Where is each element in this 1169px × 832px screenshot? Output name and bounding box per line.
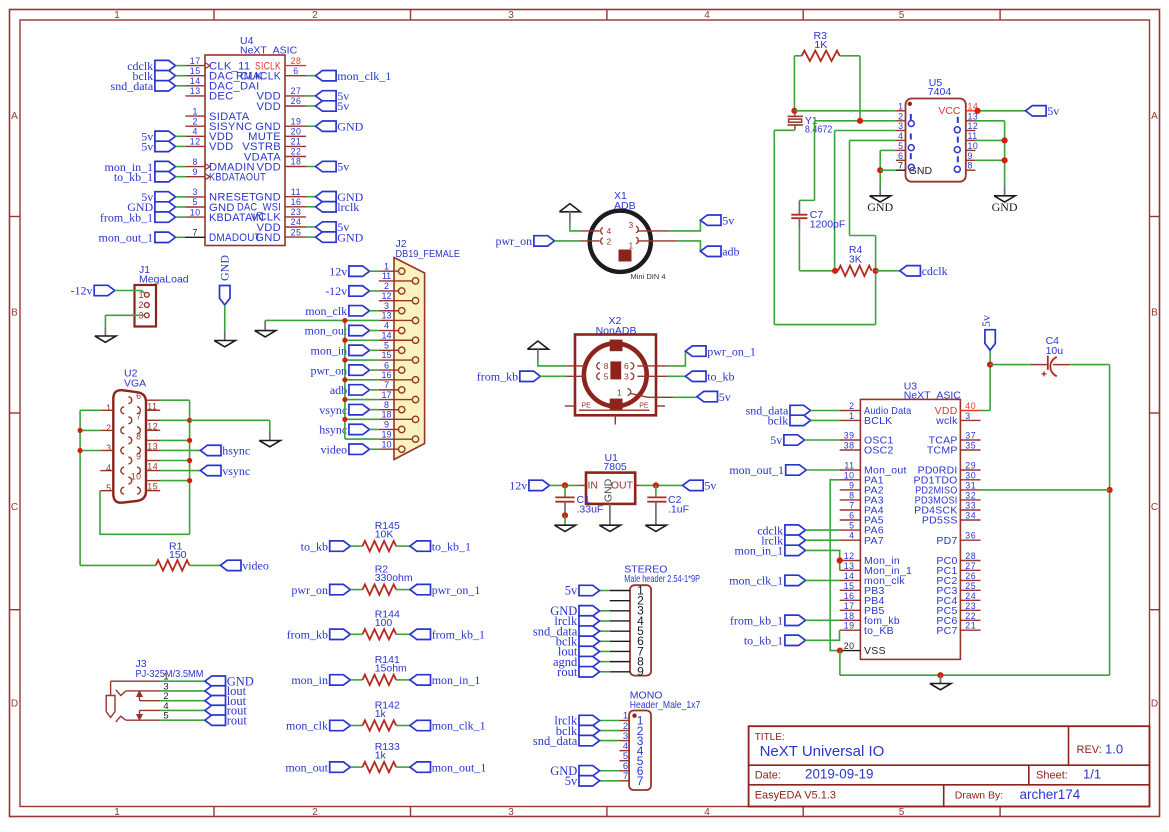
svg-text:17: 17	[844, 601, 855, 611]
svg-text:mon_in_1: mon_in_1	[735, 544, 784, 558]
svg-text:18: 18	[291, 157, 302, 167]
svg-text:13: 13	[381, 311, 391, 321]
svg-text:5v: 5v	[565, 774, 578, 788]
svg-text:VDD: VDD	[256, 161, 281, 173]
svg-text:32: 32	[965, 490, 976, 500]
svg-text:hsync: hsync	[222, 444, 250, 458]
svg-text:from_kb_1: from_kb_1	[100, 210, 153, 224]
svg-text:14: 14	[190, 76, 201, 86]
svg-text:39: 39	[844, 431, 855, 441]
svg-text:9: 9	[849, 480, 854, 490]
svg-text:10u: 10u	[1046, 345, 1064, 357]
svg-text:GND: GND	[337, 230, 363, 244]
svg-text:GND: GND	[337, 119, 363, 133]
svg-text:12: 12	[381, 291, 391, 301]
svg-text:PE: PE	[582, 403, 592, 410]
svg-text:DB19_FEMALE: DB19_FEMALE	[396, 248, 461, 260]
svg-text:to_kb_1: to_kb_1	[114, 170, 153, 184]
svg-text:7: 7	[192, 228, 197, 238]
svg-text:1: 1	[114, 10, 120, 21]
svg-text:7: 7	[898, 161, 903, 171]
svg-text:8: 8	[136, 431, 141, 441]
svg-text:PD5SS: PD5SS	[922, 515, 958, 527]
svg-text:18: 18	[381, 410, 391, 420]
svg-text:11: 11	[147, 401, 157, 411]
svg-text:5: 5	[849, 521, 854, 531]
svg-text:to_kb_1: to_kb_1	[744, 634, 783, 648]
svg-text:21: 21	[965, 621, 976, 631]
svg-text:6: 6	[384, 360, 389, 370]
svg-text:5: 5	[899, 807, 905, 818]
svg-text:bclk: bclk	[768, 414, 789, 428]
svg-text:GND: GND	[602, 478, 614, 502]
svg-text:.1uF: .1uF	[668, 504, 689, 516]
svg-text:REV:: REV:	[1077, 744, 1102, 756]
svg-text:mon_clk_1: mon_clk_1	[432, 719, 486, 733]
svg-text:19: 19	[381, 429, 391, 439]
svg-text:4: 4	[898, 131, 903, 141]
svg-text:4: 4	[704, 10, 710, 21]
svg-text:20: 20	[291, 127, 302, 137]
svg-text:2: 2	[384, 281, 389, 291]
svg-text:100: 100	[375, 617, 393, 629]
svg-text:B: B	[11, 308, 18, 319]
svg-text:35: 35	[965, 441, 976, 451]
svg-text:8: 8	[384, 400, 389, 410]
svg-text:13: 13	[147, 441, 158, 451]
svg-text:5v: 5v	[979, 315, 993, 327]
svg-text:B: B	[1151, 308, 1158, 319]
svg-text:mon_clk: mon_clk	[286, 719, 328, 733]
svg-text:7: 7	[849, 501, 854, 511]
svg-text:19: 19	[844, 621, 855, 631]
svg-text:2: 2	[138, 300, 143, 310]
svg-text:2: 2	[312, 807, 318, 818]
svg-text:1: 1	[898, 101, 903, 111]
svg-text:36: 36	[965, 531, 976, 541]
svg-text:3: 3	[384, 301, 389, 311]
svg-text:15ohm: 15ohm	[375, 663, 407, 675]
svg-text:9: 9	[192, 167, 197, 177]
svg-text:12v: 12v	[329, 264, 347, 278]
svg-text:9: 9	[968, 151, 973, 161]
svg-text:12: 12	[190, 137, 201, 147]
svg-text:31: 31	[965, 480, 976, 490]
svg-text:11: 11	[382, 271, 391, 281]
svg-text:PC7: PC7	[936, 625, 957, 637]
svg-text:Date:: Date:	[755, 769, 781, 781]
svg-text:28: 28	[965, 551, 976, 561]
svg-text:12v: 12v	[509, 479, 527, 493]
svg-text:2: 2	[849, 401, 854, 411]
svg-text:mon_out: mon_out	[285, 760, 328, 774]
svg-text:IN: IN	[588, 480, 599, 492]
svg-text:mon_in: mon_in	[311, 344, 348, 358]
svg-text:23: 23	[291, 207, 302, 217]
svg-text:to_KB: to_KB	[864, 625, 894, 637]
svg-text:5v: 5v	[1047, 104, 1059, 118]
svg-text:10: 10	[844, 470, 855, 480]
svg-text:1: 1	[106, 403, 111, 413]
svg-text:mon_out_1: mon_out_1	[432, 760, 487, 774]
svg-text:12: 12	[147, 421, 158, 431]
svg-text:snd_data: snd_data	[111, 79, 154, 93]
svg-text:5v: 5v	[722, 213, 734, 227]
svg-text:24: 24	[291, 217, 302, 227]
svg-text:5v: 5v	[770, 433, 782, 447]
svg-text:3: 3	[965, 411, 970, 421]
svg-text:pwr_on_1: pwr_on_1	[707, 344, 756, 358]
svg-text:.33uF: .33uF	[577, 504, 604, 516]
svg-text:8: 8	[604, 361, 609, 371]
svg-text:3: 3	[508, 10, 514, 21]
svg-text:11: 11	[968, 131, 978, 141]
svg-text:3K: 3K	[849, 253, 862, 265]
svg-text:rout: rout	[557, 665, 578, 679]
svg-text:6: 6	[293, 66, 298, 76]
svg-text:from_kb: from_kb	[287, 628, 328, 642]
svg-text:8: 8	[849, 490, 854, 500]
svg-text:1: 1	[114, 807, 120, 818]
svg-text:7805: 7805	[603, 461, 627, 473]
svg-text:5v: 5v	[141, 140, 153, 154]
svg-text:4: 4	[192, 127, 197, 137]
svg-text:from_kb_1: from_kb_1	[730, 614, 783, 628]
svg-text:mon_in_1: mon_in_1	[432, 673, 481, 687]
svg-text:16: 16	[844, 591, 855, 601]
svg-text:pwr_on: pwr_on	[291, 583, 328, 597]
svg-text:6: 6	[624, 361, 629, 371]
svg-text:from_kb_1: from_kb_1	[432, 628, 485, 642]
svg-text:20: 20	[844, 641, 855, 651]
svg-text:3: 3	[624, 372, 629, 382]
svg-text:vsync: vsync	[319, 403, 347, 417]
svg-text:1: 1	[849, 411, 854, 421]
svg-text:4: 4	[607, 226, 612, 236]
svg-text:lrclk: lrclk	[337, 200, 359, 214]
svg-text:snd_data: snd_data	[533, 734, 578, 748]
svg-text:12: 12	[844, 551, 855, 561]
svg-text:2: 2	[607, 237, 612, 247]
svg-text:12: 12	[968, 121, 979, 131]
svg-text:NeXT Universal IO: NeXT Universal IO	[760, 743, 885, 760]
svg-text:26: 26	[291, 96, 302, 106]
svg-text:1k: 1k	[375, 708, 387, 720]
svg-text:8.4672: 8.4672	[805, 124, 833, 136]
svg-text:5v: 5v	[337, 99, 349, 113]
svg-text:27: 27	[291, 86, 302, 96]
svg-text:1: 1	[192, 106, 197, 116]
svg-text:11: 11	[844, 461, 854, 471]
svg-text:9: 9	[384, 420, 389, 430]
svg-text:to_kb_1: to_kb_1	[432, 539, 471, 553]
svg-text:6: 6	[136, 391, 141, 401]
svg-text:2: 2	[192, 116, 197, 126]
svg-text:21: 21	[291, 137, 302, 147]
svg-text:VCC: VCC	[938, 105, 961, 117]
svg-text:2: 2	[106, 423, 111, 433]
svg-text:C: C	[11, 502, 18, 513]
svg-text:vsync: vsync	[222, 464, 250, 478]
svg-text:C: C	[1151, 502, 1158, 513]
svg-text:BCLK: BCLK	[864, 415, 892, 427]
svg-text:cdclk: cdclk	[922, 264, 948, 278]
svg-text:OSC2: OSC2	[864, 445, 894, 457]
svg-text:25: 25	[965, 581, 976, 591]
svg-text:4: 4	[849, 531, 854, 541]
svg-text:to_kb: to_kb	[707, 370, 734, 384]
svg-text:mon_out: mon_out	[305, 324, 348, 338]
svg-text:11: 11	[291, 187, 301, 197]
svg-text:A: A	[1151, 111, 1158, 122]
svg-text:23: 23	[965, 601, 976, 611]
svg-text:15: 15	[381, 350, 391, 360]
svg-text:GND: GND	[909, 165, 933, 177]
svg-text:video: video	[321, 442, 348, 456]
svg-text:7: 7	[136, 411, 141, 421]
svg-text:5: 5	[604, 372, 609, 382]
svg-text:VDD: VDD	[256, 101, 281, 113]
svg-text:D: D	[1151, 699, 1158, 710]
svg-text:330ohm: 330ohm	[375, 572, 413, 584]
svg-text:2: 2	[312, 10, 318, 21]
svg-text:pwr_on: pwr_on	[311, 363, 348, 377]
svg-text:18: 18	[844, 611, 855, 621]
svg-text:VGA: VGA	[124, 378, 146, 390]
svg-text:37: 37	[965, 431, 976, 441]
svg-text:38: 38	[844, 441, 855, 451]
svg-text:7404: 7404	[928, 86, 952, 98]
svg-text:mon_clk: mon_clk	[305, 304, 347, 318]
svg-text:PE: PE	[639, 403, 649, 410]
svg-text:15: 15	[190, 66, 201, 76]
svg-text:26: 26	[965, 571, 976, 581]
svg-text:from_kb: from_kb	[477, 370, 518, 384]
svg-text:3: 3	[508, 807, 514, 818]
svg-text:1: 1	[617, 387, 622, 397]
svg-text:-12v: -12v	[325, 284, 347, 298]
svg-text:mon_clk_1: mon_clk_1	[337, 69, 391, 83]
svg-text:rout: rout	[227, 713, 248, 727]
svg-text:1k: 1k	[375, 750, 387, 762]
svg-text:2019-09-19: 2019-09-19	[805, 767, 874, 782]
svg-text:RMACLK: RMACLK	[236, 71, 281, 83]
svg-text:7: 7	[637, 774, 644, 788]
svg-text:PA7: PA7	[864, 535, 884, 547]
svg-text:Header_Male_1x7: Header_Male_1x7	[630, 699, 701, 711]
svg-text:GND: GND	[992, 200, 1018, 214]
svg-text:wclk: wclk	[935, 415, 958, 427]
svg-text:4: 4	[106, 463, 111, 473]
svg-text:10: 10	[968, 141, 979, 151]
svg-text:1/1: 1/1	[1083, 767, 1101, 782]
svg-text:16: 16	[381, 370, 391, 380]
svg-text:Mini DIN 4: Mini DIN 4	[630, 272, 665, 281]
svg-text:17: 17	[190, 56, 201, 66]
svg-text:mon_out_1: mon_out_1	[729, 463, 784, 477]
svg-text:14: 14	[147, 462, 158, 472]
svg-text:9: 9	[637, 665, 644, 679]
svg-text:30: 30	[965, 470, 976, 480]
svg-text:GND: GND	[218, 255, 232, 281]
svg-text:archer174: archer174	[1020, 787, 1081, 802]
svg-text:2: 2	[898, 111, 903, 121]
svg-text:5v: 5v	[337, 160, 349, 174]
svg-text:5v: 5v	[719, 390, 731, 404]
svg-text:19: 19	[291, 116, 302, 126]
svg-text:13: 13	[844, 561, 855, 571]
svg-text:TITLE:: TITLE:	[755, 732, 785, 743]
svg-text:adb: adb	[722, 245, 739, 259]
svg-text:29: 29	[965, 461, 976, 471]
svg-text:25: 25	[291, 227, 302, 237]
svg-text:DEC: DEC	[209, 91, 234, 103]
svg-text:34: 34	[965, 511, 976, 521]
svg-text:3: 3	[192, 187, 197, 197]
svg-text:24: 24	[965, 591, 976, 601]
svg-text:1200pF: 1200pF	[810, 219, 846, 231]
svg-text:EasyEDA V5.1.3: EasyEDA V5.1.3	[755, 789, 836, 801]
svg-text:33: 33	[965, 501, 976, 511]
svg-text:40: 40	[965, 401, 976, 411]
svg-text:150: 150	[169, 549, 187, 561]
svg-text:Drawn By:: Drawn By:	[955, 789, 1003, 801]
svg-text:8: 8	[968, 161, 973, 171]
svg-text:1: 1	[384, 261, 389, 271]
svg-text:5: 5	[192, 197, 197, 207]
svg-text:pwr_on_1: pwr_on_1	[432, 583, 481, 597]
svg-text:GND: GND	[255, 232, 281, 244]
svg-text:10: 10	[381, 439, 391, 449]
svg-text:13: 13	[190, 86, 201, 96]
svg-text:-12v: -12v	[71, 284, 93, 298]
svg-text:5v: 5v	[565, 584, 578, 598]
svg-text:PD7: PD7	[936, 535, 957, 547]
svg-text:5: 5	[899, 10, 905, 21]
svg-text:8: 8	[192, 157, 197, 167]
svg-text:7: 7	[384, 380, 389, 390]
svg-text:15: 15	[147, 482, 158, 492]
svg-text:VDD: VDD	[209, 141, 234, 153]
svg-text:5: 5	[384, 341, 389, 351]
svg-text:to_kb: to_kb	[301, 539, 328, 553]
svg-text:4: 4	[704, 807, 710, 818]
svg-text:6: 6	[849, 511, 854, 521]
svg-text:15: 15	[844, 581, 855, 591]
svg-text:Sheet:: Sheet:	[1036, 769, 1068, 781]
svg-text:17: 17	[381, 390, 391, 400]
svg-text:28: 28	[291, 56, 302, 66]
svg-text:PJ-325M/3.5MM: PJ-325M/3.5MM	[136, 668, 204, 680]
svg-text:GND: GND	[867, 200, 893, 214]
svg-text:MegaLoad: MegaLoad	[139, 274, 189, 286]
svg-text:TCMP: TCMP	[927, 445, 958, 457]
svg-text:pwr_on: pwr_on	[496, 234, 533, 248]
svg-text:10: 10	[190, 207, 201, 217]
svg-text:D: D	[11, 699, 18, 710]
svg-text:5: 5	[106, 483, 111, 493]
svg-text:16: 16	[291, 197, 302, 207]
svg-text:14: 14	[844, 571, 855, 581]
svg-text:DMADOUT: DMADOUT	[209, 232, 261, 244]
svg-text:6: 6	[898, 151, 903, 161]
svg-text:5v: 5v	[704, 479, 716, 493]
svg-text:9: 9	[136, 452, 141, 462]
svg-text:3: 3	[629, 220, 634, 230]
svg-text:1: 1	[629, 241, 634, 251]
svg-text:VSS: VSS	[864, 645, 886, 657]
svg-text:14: 14	[381, 330, 391, 340]
svg-text:22: 22	[965, 611, 976, 621]
svg-text:mon_out_1: mon_out_1	[99, 231, 154, 245]
svg-text:27: 27	[965, 561, 976, 571]
svg-text:1.0: 1.0	[1105, 742, 1123, 757]
svg-text:Male header 2.54-1*9P: Male header 2.54-1*9P	[624, 573, 700, 585]
svg-text:mon_in: mon_in	[291, 673, 328, 687]
svg-text:A: A	[11, 111, 18, 122]
svg-text:mon_clk_1: mon_clk_1	[729, 574, 783, 588]
svg-text:hsync: hsync	[319, 423, 347, 437]
svg-text:3: 3	[106, 443, 111, 453]
svg-text:4: 4	[384, 321, 389, 331]
svg-text:video: video	[242, 559, 269, 573]
svg-text:3: 3	[898, 121, 903, 131]
svg-text:22: 22	[291, 147, 302, 157]
svg-text:5: 5	[898, 141, 903, 151]
svg-text:1K: 1K	[814, 39, 827, 51]
